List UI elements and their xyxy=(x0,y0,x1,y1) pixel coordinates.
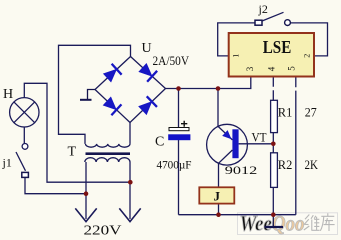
diode D1 top-left xyxy=(102,64,121,83)
transistor emitter arrowhead (PNP) xyxy=(222,130,231,139)
wire: capacitor bottom lead down xyxy=(178,140,180,215)
switch j2 blade xyxy=(262,12,284,21)
svg-text:1: 1 xyxy=(231,54,240,58)
svg-text:U: U xyxy=(142,41,152,56)
svg-text:T: T xyxy=(68,145,77,160)
resistor R2 xyxy=(271,153,278,188)
diode D3 bottom-left xyxy=(102,96,121,115)
capacitor plus sign xyxy=(181,121,187,127)
wire: j1 bottom to transformer secondary left lead xyxy=(25,178,86,194)
junction dot bottom rail at ground xyxy=(271,212,276,217)
wire: + rail from bridge right corner to LSE pin3 xyxy=(166,77,251,89)
wire: bottom rail xyxy=(179,214,296,216)
transformer secondary winding (bottom) xyxy=(85,158,130,162)
wire: VT emitter lead from + rail xyxy=(217,89,219,127)
svg-text:C: C xyxy=(155,135,164,150)
transistor emitter diagonal xyxy=(218,126,232,140)
watermark chinese 库 xyxy=(320,213,334,231)
diode D4 bottom-right xyxy=(138,96,157,115)
junction dot on + rail at emitter xyxy=(216,86,221,91)
svg-text:R1: R1 xyxy=(278,104,293,119)
svg-text:2K: 2K xyxy=(305,158,319,172)
svg-text:2: 2 xyxy=(303,54,312,58)
transistor VT circle xyxy=(207,124,248,165)
transformer T primary winding (top) xyxy=(86,144,130,147)
svg-text:VT: VT xyxy=(252,131,267,145)
svg-text:R2: R2 xyxy=(278,157,293,172)
220V arrow right xyxy=(119,208,140,221)
transistor collector diagonal xyxy=(219,150,233,163)
220V arrow left xyxy=(75,208,96,221)
capacitor C bottom plate xyxy=(168,134,190,140)
wire: VT base to R1/R2 junction xyxy=(239,143,274,145)
svg-text:2A/50V: 2A/50V xyxy=(153,53,190,68)
svg-text:j2: j2 xyxy=(258,2,268,16)
svg-text:9012: 9012 xyxy=(225,165,258,177)
svg-text:3: 3 xyxy=(245,66,255,71)
diode D2 top-right xyxy=(138,62,157,81)
capacitor C top plate xyxy=(169,128,189,131)
svg-text:J: J xyxy=(214,189,221,204)
resistor R1 xyxy=(271,100,278,132)
wire: bridge top corner up, top rail left, down to transformer primary-top left lead xyxy=(59,45,131,144)
relay J box xyxy=(199,187,234,203)
junction dot base/R1/R2 xyxy=(271,142,276,147)
junction dot secondary right lead xyxy=(128,180,133,185)
wire: j2 right contact to LSE pin2 xyxy=(290,23,327,56)
svg-text:j1: j1 xyxy=(2,155,12,169)
wire: R2 bottom to rail xyxy=(272,187,274,214)
junction dot secondary left lead xyxy=(84,191,89,196)
wire: LSE pin1 to j2 left contact xyxy=(218,23,255,56)
lamp H xyxy=(10,98,39,127)
wire: R1 bottom to R2 top xyxy=(272,133,274,153)
svg-text:27: 27 xyxy=(305,105,317,119)
switch j1 top contact xyxy=(22,144,28,150)
wire: lamp bottom lead xyxy=(23,127,25,143)
IC U1 LSE box xyxy=(229,33,314,77)
svg-text:4700µF: 4700µF xyxy=(157,158,192,172)
wire: bridge bottom corner down to top winding right lead xyxy=(129,123,131,144)
wire: secondary right lead down to 220V arrow xyxy=(129,162,131,219)
junction dot bottom rail at relay xyxy=(216,212,221,217)
svg-text:5: 5 xyxy=(287,66,297,71)
wire: LSE pin4 lead to R1 (with gap) xyxy=(272,77,274,101)
wire: capacitor top lead xyxy=(178,89,180,128)
svg-text:4: 4 xyxy=(267,66,277,71)
watermark chinese 维 xyxy=(304,215,320,231)
bridge rectifier U diamond xyxy=(95,57,166,123)
wire: lamp top around to line joining secondary right lead xyxy=(24,83,130,182)
junction dot on + rail at capacitor xyxy=(176,86,181,91)
ground at bridge left corner xyxy=(80,90,95,100)
transistor base bar xyxy=(232,129,238,158)
wire: LSE pin5 lead down right side to bottom rail (with gap) xyxy=(295,77,297,215)
switch j2 right contact xyxy=(285,20,291,26)
ground at bottom rail xyxy=(265,215,284,227)
wire: relay J bottom lead xyxy=(218,204,220,215)
svg-text:H: H xyxy=(3,87,13,102)
wire: secondary left lead down to 220V arrow xyxy=(85,162,87,219)
transformer core xyxy=(86,152,131,155)
switch j1 blade xyxy=(16,152,26,171)
switch j2 left contact xyxy=(255,20,262,25)
svg-text:LSE: LSE xyxy=(263,37,292,57)
wire: VT collector lead down to relay J xyxy=(218,163,220,187)
switch j1 bottom contact xyxy=(22,172,29,177)
watermark box xyxy=(238,213,338,235)
svg-text:220V: 220V xyxy=(84,224,122,239)
